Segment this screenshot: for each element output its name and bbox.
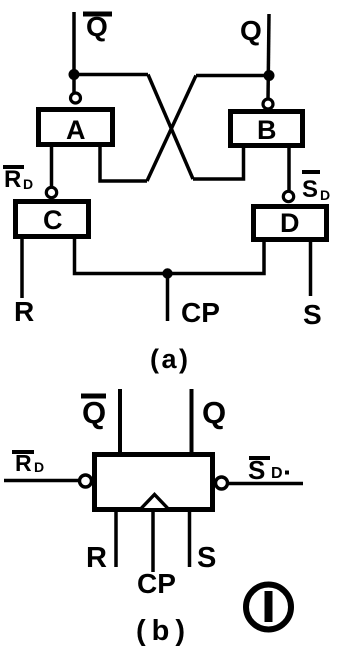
wire Q node to cross (horizontal) bbox=[196, 74, 269, 78]
junction dot Q node bbox=[264, 70, 275, 81]
wire CP lead bottom (part b) bbox=[151, 512, 155, 572]
wire Q lead (part b) bbox=[190, 389, 194, 455]
gate B box bbox=[231, 112, 303, 146]
wire Q-bar lead (part b) bbox=[118, 389, 122, 455]
junction dot CP node bbox=[162, 268, 172, 278]
wire R-bar-D lead (part b) bbox=[4, 479, 79, 483]
wire Q vertical bbox=[268, 14, 269, 100]
svg-text:R: R bbox=[14, 296, 34, 327]
wire B output to D bubble bbox=[287, 145, 291, 191]
svg-text:Q: Q bbox=[240, 15, 262, 46]
wire C to CP line bbox=[75, 236, 265, 274]
inverter bubble gate A output bbox=[71, 93, 81, 103]
gate A box bbox=[39, 110, 113, 146]
inverter bubble R-bar-D bbox=[80, 475, 92, 487]
wire bottom-right horizontal to B bbox=[193, 146, 244, 179]
svg-text:D: D bbox=[23, 176, 33, 192]
svg-text:Q: Q bbox=[82, 395, 106, 430]
wire diagonal Q-bar to gate B input bbox=[148, 75, 193, 180]
wire S lead bottom (part b) bbox=[188, 509, 192, 567]
label S-bar-D (part b) bbox=[248, 455, 289, 485]
wire Q-bar node to cross (horizontal) bbox=[74, 73, 148, 77]
wire A output to C bubble bbox=[50, 144, 54, 187]
svg-text:Q: Q bbox=[202, 395, 226, 430]
wire CP vertical bbox=[166, 274, 170, 322]
wire diagonal Q to gate A input bbox=[147, 76, 196, 182]
label Q-bar (part b) bbox=[81, 395, 106, 430]
inverter bubble S-bar-D bbox=[216, 477, 228, 489]
svg-text:D: D bbox=[34, 459, 44, 475]
svg-text:B: B bbox=[257, 115, 277, 145]
label S-bar-D (part a) bbox=[302, 172, 330, 203]
flip-flop box (part b) bbox=[95, 455, 213, 510]
wire C to R terminal bbox=[20, 236, 24, 298]
svg-text:CP: CP bbox=[181, 297, 220, 328]
junction dot Q-bar node bbox=[69, 69, 80, 80]
label R-bar-D (part b) bbox=[12, 450, 44, 476]
wire bottom-left horizontal to A bbox=[100, 146, 147, 181]
wire Q-bar vertical bbox=[72, 12, 76, 93]
label R-bar-D (part a) bbox=[3, 166, 33, 193]
gate D box bbox=[254, 207, 327, 240]
svg-text:D: D bbox=[320, 187, 330, 203]
svg-text:R: R bbox=[86, 542, 107, 574]
clock edge triangle bbox=[142, 495, 168, 509]
inverter bubble gate D input bbox=[283, 191, 293, 201]
inverter bubble gate B output bbox=[263, 99, 273, 109]
svg-text:R: R bbox=[4, 166, 21, 193]
svg-text:S: S bbox=[197, 542, 216, 574]
svg-text:C: C bbox=[43, 205, 63, 235]
svg-text:(a): (a) bbox=[150, 344, 191, 374]
svg-text:CP: CP bbox=[137, 568, 176, 599]
svg-text:A: A bbox=[66, 115, 86, 145]
svg-text:S: S bbox=[303, 299, 322, 330]
wire D to S terminal bbox=[309, 239, 313, 296]
circled numeral 1 badge bbox=[246, 585, 291, 630]
gate C box bbox=[16, 202, 89, 237]
svg-text:D: D bbox=[280, 208, 300, 238]
svg-text:D: D bbox=[271, 465, 283, 482]
wire S-bar-D lead (part b) bbox=[228, 482, 303, 486]
label Q-bar (part a) bbox=[83, 11, 112, 42]
wire R lead bottom (part b) bbox=[114, 509, 118, 567]
svg-text:(b): (b) bbox=[136, 615, 191, 647]
svg-text:S: S bbox=[302, 176, 318, 203]
inverter bubble gate C input bbox=[46, 187, 56, 197]
